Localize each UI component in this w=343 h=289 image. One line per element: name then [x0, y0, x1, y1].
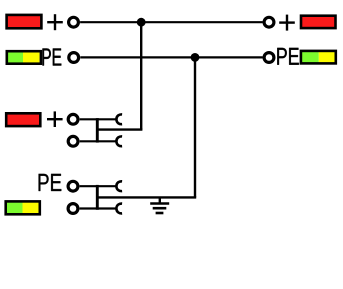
wire + bus horizontal [80, 21, 263, 23]
wire stub group 1 upper socket [97, 118, 116, 120]
wire group 1 lower [80, 140, 97, 142]
red LED indicator (right, + bus) [301, 16, 336, 28]
terminal circle (right, + bus) [264, 17, 274, 27]
terminal circle (group 2 upper) [68, 181, 78, 191]
bus bar group 2 [96, 185, 99, 210]
node junction + bus [137, 18, 146, 27]
wire PE bus horizontal [80, 56, 262, 58]
terminal circle (left, PE bus) [69, 53, 79, 63]
wire group 1 upper [80, 118, 97, 120]
node junction PE bus [191, 53, 200, 62]
socket contact group 2 lower [116, 204, 122, 214]
wire vertical from + bus to contact group 1 [140, 22, 142, 129]
socket contact group 2 upper [116, 181, 122, 191]
red LED indicator (left, + bus) [7, 15, 42, 28]
socket contact group 1 lower [116, 136, 122, 146]
wire group 1 middle link [97, 128, 142, 130]
wire stub group 1 lower socket [97, 140, 116, 142]
wire stub group 2 lower socket [97, 207, 116, 209]
label + (contact group 1) [47, 111, 63, 127]
terminal circle (group 2 lower) [68, 204, 78, 214]
terminal circle (left, + bus) [69, 17, 79, 27]
green/yellow PE indicator (contact group 2) [6, 201, 40, 214]
terminal circle (group 1 lower) [68, 136, 78, 146]
bus bar group 1 [96, 118, 99, 143]
wire group 2 lower [80, 207, 97, 209]
label PE (left, PE bus) [42, 49, 61, 66]
socket contact group 1 upper [116, 114, 122, 124]
wire group 2 middle link [97, 196, 196, 198]
label + (left, + bus) [47, 14, 63, 30]
ground symbol [150, 197, 169, 214]
wire stub group 2 upper socket [97, 185, 116, 187]
green/yellow PE indicator (right, PE bus) [301, 51, 336, 64]
label + (right, + bus) [279, 15, 295, 31]
wire group 2 upper [80, 185, 97, 187]
label PE (contact group 2) [39, 174, 62, 191]
label PE (right, PE bus) [277, 48, 298, 65]
wire vertical from PE bus to contact group 2 [194, 57, 196, 197]
red LED indicator (contact group 1) [6, 113, 40, 126]
terminal circle (group 1 upper) [68, 114, 78, 124]
green/yellow PE indicator (left, PE bus) [7, 51, 41, 64]
terminal circle (right, PE bus) [264, 53, 274, 63]
